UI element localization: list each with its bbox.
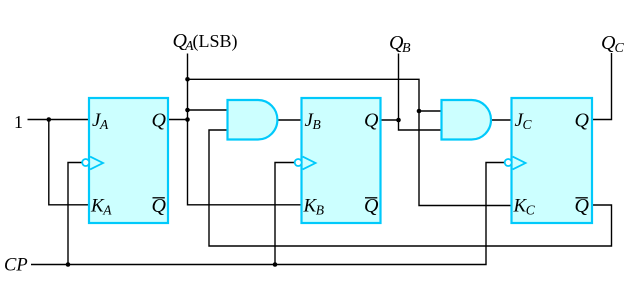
svg-text:CP: CP — [4, 256, 28, 276]
svg-text:Q: Q — [364, 110, 379, 132]
svg-text:Q: Q — [575, 110, 590, 132]
svg-text:Q: Q — [152, 110, 167, 132]
svg-text:QA(LSB): QA(LSB) — [173, 30, 238, 54]
svg-text:1: 1 — [14, 112, 23, 132]
